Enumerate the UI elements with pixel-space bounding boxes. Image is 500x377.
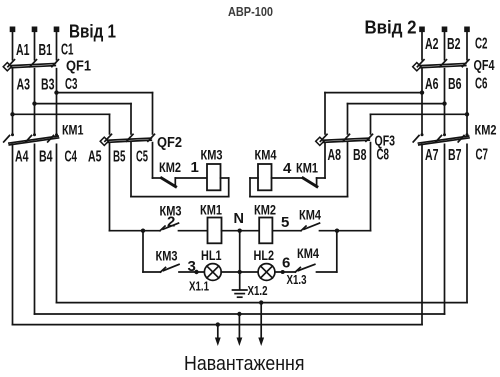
svg-text:A1: A1	[16, 42, 30, 59]
wire B3 vertical	[34, 69, 36, 135]
svg-text:A8: A8	[328, 147, 342, 164]
junction C6 tap	[465, 112, 469, 116]
wire HL2 to contact 6	[275, 271, 295, 273]
wire down to QF3 pole C	[370, 114, 372, 134]
wire A5 to row2	[110, 230, 144, 232]
wire down to QF2 pole B	[130, 104, 132, 134]
junction load tap A	[216, 322, 220, 326]
svg-text:B8: B8	[353, 147, 367, 164]
input feed arrow phase B1	[32, 27, 38, 60]
wire KM2 coil to contact 5	[272, 230, 301, 232]
svg-text:Ввід 1: Ввід 1	[69, 21, 116, 42]
svg-text:КМ3: КМ3	[201, 148, 223, 163]
junction N to lamps	[238, 270, 242, 274]
svg-text:Ввід 2: Ввід 2	[365, 17, 417, 38]
wire C6 to QF3	[371, 113, 468, 115]
no contact KM3 pin3	[161, 264, 180, 272]
circuit breaker QF4	[413, 60, 469, 71]
svg-text:N: N	[234, 211, 244, 227]
svg-text:Навантаження: Навантаження	[184, 352, 305, 375]
load arrow A	[215, 325, 221, 346]
svg-text:КМ2: КМ2	[475, 122, 497, 137]
svg-text:4: 4	[283, 160, 292, 177]
svg-text:X1.3: X1.3	[287, 272, 307, 287]
wire A8 down to KM1 contact	[324, 143, 326, 178]
lamp HL1	[204, 264, 221, 281]
terminal X1.3	[281, 270, 285, 274]
wire A5 down to control row 2	[109, 143, 111, 231]
svg-text:QF1: QF1	[66, 59, 91, 75]
input feed arrow phase C1	[54, 27, 60, 60]
svg-text:КМ4: КМ4	[297, 246, 319, 261]
svg-text:B1: B1	[39, 42, 53, 59]
svg-text:QF2: QF2	[157, 135, 182, 151]
wire contact 3 to HL1	[179, 271, 204, 273]
wire B6 vertical	[444, 69, 446, 135]
svg-text:A4: A4	[15, 149, 29, 166]
wire B4 to load bus	[34, 144, 36, 314]
svg-text:B3: B3	[41, 77, 55, 94]
wire row3 right riser	[336, 231, 338, 272]
svg-text:X1.1: X1.1	[189, 279, 209, 294]
svg-text:A5: A5	[88, 149, 102, 166]
svg-text:A2: A2	[425, 36, 439, 53]
svg-text:B4: B4	[39, 149, 53, 166]
wire KM4 return drop	[249, 178, 251, 197]
junction row2 left	[141, 229, 145, 233]
circuit breaker QF2	[100, 134, 154, 145]
svg-text:C7: C7	[476, 147, 489, 164]
wire A6 to QF3	[325, 92, 422, 94]
wire N down	[239, 231, 241, 272]
svg-text:B5: B5	[113, 149, 126, 166]
svg-text:QF4: QF4	[474, 58, 495, 74]
no contact KM4 pin5	[301, 223, 320, 231]
wire B7 to load bus	[444, 144, 446, 314]
svg-text:C6: C6	[475, 76, 488, 93]
svg-text:КМ1: КМ1	[296, 161, 318, 176]
wire C3 to QF2	[57, 92, 153, 94]
wire B6 to QF3	[348, 103, 445, 105]
load arrow B	[237, 314, 243, 346]
bus phase C	[57, 302, 468, 304]
no contact KM3 pin2	[160, 223, 179, 231]
svg-text:B2: B2	[447, 36, 461, 53]
svg-text:C1: C1	[61, 42, 74, 59]
input feed arrow phase A2	[419, 27, 425, 60]
wire C7 to load bus	[466, 144, 468, 302]
bus phase B	[35, 313, 445, 315]
wire C4 to load bus	[56, 144, 58, 302]
ground	[233, 272, 247, 297]
svg-text:A3: A3	[17, 77, 31, 94]
coil KM4	[258, 164, 272, 190]
svg-text:КМ2: КМ2	[159, 160, 181, 175]
junction A3 tap	[10, 112, 14, 116]
svg-text:A6: A6	[425, 76, 439, 93]
circuit breaker QF3	[316, 134, 373, 145]
wire coil return to B5	[131, 196, 229, 198]
svg-text:КМ4: КМ4	[299, 208, 321, 223]
wire A7 to load bus	[421, 144, 423, 324]
svg-text:5: 5	[281, 214, 289, 231]
junction B6 tap	[442, 101, 446, 105]
contactor KM2 main poles	[413, 133, 469, 145]
coil KM1	[208, 218, 222, 244]
wire C6 vertical	[466, 69, 468, 135]
svg-text:HL2: HL2	[254, 248, 275, 263]
svg-text:КМ2: КМ2	[254, 202, 276, 217]
wire B3 to QF2	[35, 103, 132, 105]
wire to KM3 contact 2	[143, 230, 160, 232]
wire KM3 coil out	[221, 177, 229, 179]
svg-text:C4: C4	[65, 149, 78, 166]
wire down to QF3 pole A	[324, 93, 326, 134]
wire A3 to QF2	[13, 113, 110, 115]
wire C8 down to control row 2	[370, 143, 372, 231]
wire C3 vertical	[56, 69, 58, 135]
wire B5 down to coil return	[130, 143, 132, 197]
contactor KM1 main poles	[4, 133, 59, 145]
wire down to QF2 pole C	[152, 93, 154, 134]
svg-text:КМ1: КМ1	[200, 202, 222, 217]
svg-text:C2: C2	[475, 36, 488, 53]
wire down to QF3 pole B	[347, 104, 349, 134]
input feed arrow phase A1	[10, 27, 16, 60]
coil KM2	[259, 218, 272, 244]
junction row2 right	[335, 229, 339, 233]
wire N to KM2 coil	[240, 230, 260, 232]
wire to KM1 coil	[179, 230, 208, 232]
bus phase A	[13, 324, 423, 326]
wire junction to C8	[337, 230, 371, 232]
wire KM3 return drop	[228, 178, 230, 197]
svg-text:КМ1: КМ1	[62, 122, 84, 137]
junction C3 tap	[54, 90, 58, 94]
wire C5 down to KM2 contact	[152, 143, 154, 178]
wire coil return to B8	[250, 196, 348, 198]
svg-text:X1.2: X1.2	[248, 283, 268, 298]
wire to KM3 contact 3	[143, 271, 161, 273]
coil KM3	[207, 164, 221, 190]
wire A3 vertical	[12, 69, 14, 135]
svg-text:C8: C8	[377, 147, 390, 164]
svg-text:АВР-100: АВР-100	[228, 4, 273, 19]
wire A6 vertical	[421, 69, 423, 135]
wire contact 6 to riser	[317, 271, 337, 273]
junction node N	[238, 229, 242, 233]
svg-text:B6: B6	[448, 76, 462, 93]
svg-text:B7: B7	[448, 147, 462, 164]
circuit breaker QF1	[3, 60, 58, 71]
load arrow C	[258, 303, 264, 346]
wire down to QF2 pole A	[109, 114, 111, 134]
wire B8 down to coil return	[347, 143, 349, 197]
wire row2 to row3 left	[142, 231, 144, 272]
input feed arrow phase C2	[464, 27, 470, 60]
input feed arrow phase B2	[442, 27, 448, 60]
wire KM1 coil to N	[222, 230, 240, 232]
svg-text:C3: C3	[65, 76, 78, 93]
nc contact KM1	[272, 178, 326, 187]
wire HL1 to HL2	[221, 271, 258, 273]
nc contact KM2	[153, 178, 208, 187]
svg-text:C5: C5	[136, 149, 148, 166]
svg-text:КМ3: КМ3	[156, 249, 178, 264]
svg-text:1: 1	[191, 159, 199, 176]
junction A6 tap	[420, 90, 424, 94]
svg-text:HL1: HL1	[201, 248, 222, 263]
junction B3 tap	[32, 101, 36, 105]
junction load tap B	[237, 312, 241, 316]
svg-text:КМ4: КМ4	[255, 148, 277, 163]
wire KM4 coil out	[250, 177, 258, 179]
no contact KM4 pin6	[295, 264, 315, 272]
svg-text:A7: A7	[425, 147, 439, 164]
junction load tap C	[259, 300, 263, 304]
wire contact 5 to junction	[320, 230, 338, 232]
wire A4 to load bus	[12, 144, 14, 324]
svg-text:6: 6	[282, 255, 290, 272]
lamp HL2	[258, 264, 275, 281]
terminal X1.1	[194, 270, 198, 274]
